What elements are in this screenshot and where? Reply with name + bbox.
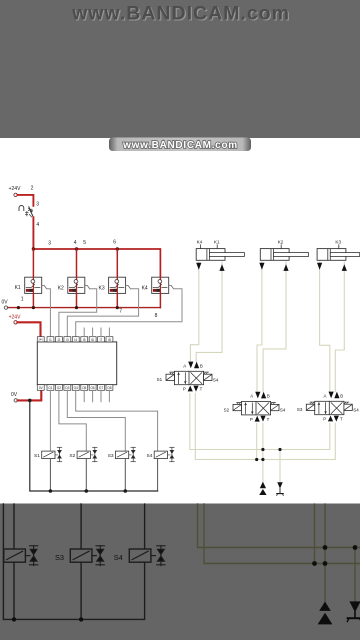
compressed air supply (259, 482, 266, 495)
V3 port P arrow (328, 416, 333, 422)
cyl2 left port flow arrow (259, 263, 264, 270)
V3 left cell flow paths (319, 403, 326, 414)
cylinder 2 (double acting) (260, 249, 308, 261)
PLC input terminal 24V (37, 337, 44, 342)
switch contact blade (29, 207, 34, 218)
svg-text:3: 3 (36, 201, 39, 207)
junction T bus / riser (261, 458, 264, 461)
wire 0V to PLC 0V output (red) (18, 391, 42, 401)
svg-text:P: P (183, 387, 186, 392)
pneumatic tube cyl2 left port to valve2 A (257, 262, 262, 392)
V3 right solenoid (S4) (344, 404, 352, 410)
svg-text:P: P (250, 417, 253, 422)
wire K1 coil to 0V rail (red) (32, 293, 34, 307)
zoom: exhaust riser (354, 548, 356, 603)
zoom: rung wire S2' (13, 504, 15, 619)
V3 port B arrow (334, 392, 339, 399)
svg-text:S4: S4 (280, 408, 286, 413)
cyl1 left port flow arrow (196, 263, 201, 270)
0V terminal (left) (4, 306, 7, 309)
V2 port P arrow (255, 416, 260, 422)
contact stub K2 (85, 285, 90, 288)
PLC input terminal I2 (56, 337, 63, 342)
svg-text:5: 5 (83, 240, 86, 246)
indicator S4 (170, 447, 175, 461)
svg-text:+24V: +24V (9, 186, 21, 192)
svg-text:I2: I2 (58, 338, 61, 342)
bottom gray letterbox band (0, 504, 360, 640)
V1 left cell flow paths (179, 373, 186, 384)
second watermark pill (109, 138, 251, 152)
svg-text:0V: 0V (11, 392, 18, 398)
junction rail/K1 (32, 306, 35, 309)
svg-text:S4: S4 (114, 553, 123, 562)
junction 0V / S-rail drop (28, 399, 32, 403)
PLC input terminal I8 (106, 337, 113, 342)
junction bus/K2 (75, 247, 78, 250)
detent switch S0 icon (arch) (19, 206, 24, 211)
V2 port A arrow (255, 392, 260, 399)
zoom: indicator (leftmost) (29, 546, 37, 566)
junction bus/K1 (32, 247, 35, 250)
svg-text:I7: I7 (100, 338, 103, 342)
svg-text:0V: 0V (2, 300, 9, 306)
cyl3 right port flow arrow (342, 264, 347, 271)
solenoid S2 (77, 451, 93, 459)
stub pin I5 (83, 328, 85, 337)
V2 left cell flow paths (246, 403, 253, 414)
valve V3 (5/2 way, solenoids S3/S4) (297, 392, 359, 422)
exhaust silencer (277, 482, 284, 495)
svg-text:K1: K1 (15, 285, 21, 291)
PLC input terminal I5 (81, 337, 88, 342)
svg-text:K3: K3 (99, 285, 105, 291)
sensor tick K3 (cyl3) (338, 245, 340, 249)
indicator S1 (57, 447, 62, 461)
wire S4 to 0V bus (157, 459, 159, 491)
V2 port T arrow (260, 416, 265, 422)
svg-text:7: 7 (119, 309, 122, 315)
zoom: solenoid box S3 (70, 549, 96, 562)
svg-text:8: 8 (155, 313, 158, 319)
sensor tick K1 (cyl1) (216, 245, 218, 249)
svg-text:+24V: +24V (9, 314, 21, 320)
svg-text:I8: I8 (108, 338, 111, 342)
tube valve2 P to T bus (256, 424, 258, 460)
svg-text:O5: O5 (82, 386, 86, 390)
junction rail/K2 (75, 306, 78, 309)
PLC output terminal 0V (37, 385, 44, 391)
wire K2 contact to PLC I2 (59, 289, 97, 337)
svg-text:3: 3 (48, 241, 51, 247)
cylinder 3 (double acting) (317, 249, 360, 261)
+24V terminal (PLC supply) (14, 321, 17, 324)
cyl3 left port flow arrow (317, 263, 322, 270)
junction T bus / valve2 P (255, 458, 258, 461)
svg-text:S3: S3 (55, 553, 64, 562)
zoom: junction P bus / exhaust (353, 545, 358, 550)
svg-text:S2: S2 (69, 453, 75, 459)
junction rail/terminal stub (17, 306, 20, 309)
junction bus/S2 (85, 489, 89, 493)
svg-text:K4: K4 (197, 240, 203, 245)
wire bus to K2 coil (red) (76, 249, 78, 277)
PLC input terminal I1 (47, 337, 54, 342)
valve V2 (5/2 way, solenoids S2/S4) (224, 392, 286, 422)
stub pin O5 (83, 390, 85, 401)
PLC output terminal O7 (98, 385, 105, 391)
V1 left solenoid (S1) (166, 374, 174, 380)
svg-text:I5: I5 (83, 338, 86, 342)
svg-text:O4: O4 (74, 386, 78, 390)
svg-text:S1: S1 (34, 453, 40, 459)
stub pin I7 (100, 328, 102, 337)
svg-text:A: A (250, 394, 253, 399)
PLC output terminal O6 (89, 385, 96, 391)
solenoid S3 (115, 451, 131, 459)
svg-text:O8: O8 (107, 386, 111, 390)
tube exhaust riser (279, 450, 281, 482)
stub pin I6 (92, 328, 94, 337)
svg-text:O3: O3 (65, 386, 69, 390)
solenoid S4 (154, 451, 170, 459)
svg-text:24V: 24V (38, 338, 43, 342)
wire K3 coil to 0V rail (red) (116, 293, 118, 307)
wire S2 to 0V bus (85, 459, 87, 491)
cyl1 right port flow arrow (219, 264, 224, 271)
PLC module U1 (37, 342, 116, 385)
pneumatic tube cyl3 right port to valve3 B (335, 262, 344, 392)
zoom: tube P bus (198, 504, 360, 548)
svg-text:P: P (323, 417, 326, 422)
svg-text:O6: O6 (90, 386, 94, 390)
V1 port T arrow (193, 386, 198, 392)
stub pin I8 (108, 328, 110, 337)
svg-text:T: T (267, 417, 270, 422)
top gray letterbox band (0, 0, 360, 138)
svg-text:S3: S3 (297, 407, 303, 412)
svg-text:K2: K2 (58, 285, 64, 291)
V2 port B arrow (261, 392, 266, 399)
junction P bus / riser (261, 448, 264, 451)
0V rail (red) (8, 307, 161, 309)
svg-text:I3: I3 (66, 338, 69, 342)
svg-text:O2: O2 (57, 386, 61, 390)
svg-text:K3: K3 (335, 240, 341, 245)
pneumatic T bus line (195, 393, 335, 459)
wire K2 coil to 0V rail (red) (76, 293, 78, 307)
tube valve2 T / supply riser (262, 424, 264, 482)
wire S3 to 0V bus (124, 459, 126, 491)
svg-text:B: B (340, 393, 343, 398)
PLC input terminal I7 (98, 337, 105, 342)
zoom: junction bus/S3' (79, 617, 83, 621)
V1 port B arrow (194, 362, 199, 369)
pneumatic tube cyl1 left port to valve1 A (190, 262, 198, 362)
pneumatic tube cyl1 right port to valve1 B (196, 262, 222, 362)
zoom: junction T bus / riser (323, 561, 328, 566)
svg-text:T: T (340, 417, 343, 422)
contact stub K3 (126, 285, 131, 288)
svg-text:I6: I6 (91, 338, 94, 342)
detent switch actuator glyph (26, 209, 32, 217)
svg-text:www.BANDICAM.com: www.BANDICAM.com (122, 140, 238, 151)
svg-text:A: A (183, 363, 186, 368)
svg-text:S3: S3 (108, 453, 114, 459)
solenoid S1 (42, 451, 58, 459)
PLC terminal labels (inputs) (38, 338, 110, 342)
indicator S3 (131, 447, 136, 461)
stub pin O7 (100, 390, 102, 401)
zoom: rung wire S4' upper (144, 504, 146, 549)
PLC output terminal O2 (56, 385, 63, 391)
svg-text:A: A (324, 393, 327, 398)
stub pin O6 (92, 390, 94, 401)
zoom: junction bus/S2' (12, 617, 16, 621)
V2 right cell crossed paths (258, 403, 269, 414)
relay coil K3 (109, 277, 126, 293)
svg-text:B: B (200, 363, 203, 368)
V3 port A arrow (329, 392, 334, 399)
wire K4 coil to 0V rail (red) (159, 293, 161, 307)
valve V1 (5/2 way, solenoids S1/S4) (157, 362, 219, 392)
zoom: solenoid box S4 (129, 549, 155, 562)
relay coil K4 (152, 277, 169, 293)
+24V bus rail (red) (33, 249, 160, 277)
PLC output terminal O4 (72, 385, 79, 391)
wire K1 contact to PLC I1 (47, 289, 51, 337)
PLC input terminal I4 (72, 337, 79, 342)
PLC output terminal O3 (64, 385, 71, 391)
wire O4 to S4 (76, 390, 158, 451)
wire O3 to S3 (67, 390, 125, 451)
svg-text:B: B (267, 394, 270, 399)
wire S1 to 0V bus (49, 459, 51, 491)
svg-text:4: 4 (74, 240, 77, 246)
svg-text:K4: K4 (142, 285, 148, 291)
wire bus to K1 coil (red) (32, 249, 34, 277)
wire +24V to PLC 24V input (red) (17, 322, 40, 336)
wire switch to +24V bus (red) (32, 217, 34, 249)
svg-text:T: T (200, 387, 203, 392)
V1 right cell crossed paths (191, 373, 202, 384)
PLC terminal labels (outputs) (39, 386, 112, 390)
pneumatic tube cyl3 left port to valve3 A (320, 262, 330, 392)
V1 port A arrow (188, 362, 193, 369)
svg-text:S1: S1 (157, 377, 163, 382)
wire +24V terminal to switch (red) (17, 195, 33, 206)
svg-text:www.BANDICAM.com: www.BANDICAM.com (71, 3, 290, 25)
junction rail/K3 (116, 306, 119, 309)
V1 port P arrow (188, 386, 193, 392)
svg-text:S4: S4 (213, 377, 219, 382)
sensor tick K2 (cyl2) (280, 245, 282, 249)
zoom: supply riser (324, 504, 326, 602)
svg-text:6: 6 (113, 240, 116, 246)
wire O1 to S1 (49, 390, 51, 451)
V2 left solenoid (S2) (233, 404, 241, 410)
svg-text:I4: I4 (74, 338, 77, 342)
V2 body (241, 402, 270, 415)
cylinder 1 (double acting) (196, 249, 244, 261)
0V terminal (PLC supply) (14, 399, 17, 402)
+24V terminal (top left) (14, 193, 17, 196)
contact stub K1 (42, 285, 47, 288)
PLC input terminal I3 (64, 337, 71, 342)
junction bus/K3 (116, 247, 119, 250)
junction bus/S3 (124, 489, 128, 493)
zoom: 0V left drop and bottom bus (3, 504, 144, 619)
svg-text:K1: K1 (214, 240, 220, 245)
svg-text:2: 2 (31, 185, 34, 191)
stub pin O8 (108, 390, 110, 401)
PLC output terminal O5 (81, 385, 88, 391)
V3 right cell crossed paths (331, 403, 342, 414)
junction P bus / exhaust (278, 448, 281, 451)
V3 port T arrow (334, 416, 339, 422)
zoom: junction T bus / valve P (312, 561, 317, 566)
V1 right solenoid (S4) (204, 374, 212, 380)
0V bottom bus (30, 400, 158, 491)
contact stub K4 (169, 285, 174, 288)
junction bus/S1 (49, 489, 53, 493)
PLC output terminal O8 (106, 385, 113, 391)
zoom: exhaust silencer (347, 601, 360, 621)
wire O2 to S2 (59, 390, 86, 451)
V3 left solenoid (S3) (306, 404, 314, 410)
svg-text:S2: S2 (224, 407, 230, 412)
zoom: compressed air supply (318, 602, 333, 625)
PLC output terminal O1 (47, 385, 54, 391)
relay coil K1 (25, 277, 42, 293)
sensor tick K4 (cyl1) (200, 245, 202, 249)
zoom: indicator S4 (157, 546, 165, 566)
svg-text:O1: O1 (48, 386, 52, 390)
svg-text:S4: S4 (353, 407, 359, 412)
zoom: junction P bus / riser (323, 545, 328, 550)
zoom: tube valve P drop (314, 504, 316, 564)
wire bus to K3 coil (red) (116, 249, 118, 277)
pneumatic tube cyl2 right port to valve2 B (263, 262, 286, 392)
cyl2 right port flow arrow (283, 264, 288, 271)
wire K4 contact to PLC I4 (76, 289, 182, 337)
svg-text:4: 4 (36, 222, 39, 228)
V2 right solenoid (S4) (271, 404, 279, 410)
indicator S2 (93, 447, 98, 461)
zoom: indicator S3 (96, 546, 104, 566)
zoom: rung wire S3' (80, 504, 82, 619)
zoom: solenoid box (leftmost, cut) (4, 549, 30, 562)
V3 body (315, 401, 344, 414)
PLC input terminal I6 (89, 337, 96, 342)
wire K3 contact to PLC I3 (67, 289, 138, 337)
svg-text:O7: O7 (99, 386, 103, 390)
switch arrow mark (29, 208, 33, 212)
relay coil K2 (68, 277, 85, 293)
pneumatic P bus line (190, 393, 330, 449)
V1 body (174, 371, 203, 384)
zoom: tube T bus (204, 504, 360, 564)
svg-text:I1: I1 (49, 338, 52, 342)
svg-text:S4: S4 (147, 453, 153, 459)
svg-text:1: 1 (21, 297, 24, 303)
svg-text:K2: K2 (278, 240, 284, 245)
